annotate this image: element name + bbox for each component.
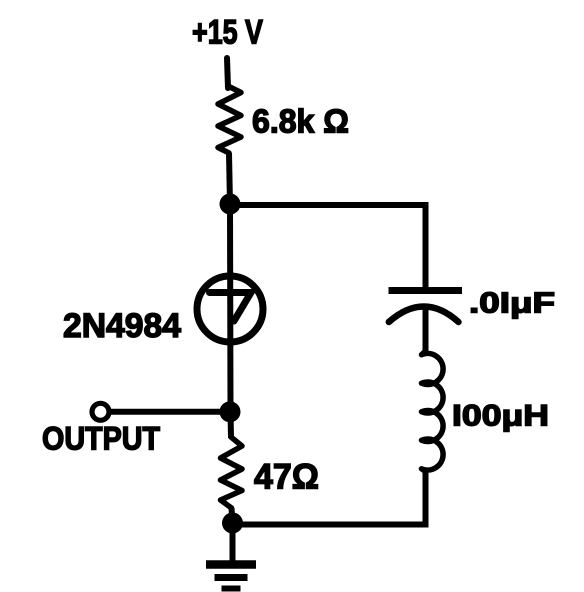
node A junction dot — [220, 194, 241, 215]
wire: R2 to node C — [232, 508, 233, 523]
svg-text:2N4984: 2N4984 — [63, 307, 181, 345]
transistor Q1 internal arrow symbol — [210, 293, 252, 322]
capacitor C1 top plate — [389, 287, 463, 294]
wire: R1 to node A — [229, 153, 230, 205]
resistor R1 — [218, 86, 241, 153]
svg-text:6.8k Ω: 6.8k Ω — [252, 103, 349, 140]
wire: node A to tank branch (top horizontal) — [230, 202, 429, 208]
wire: capacitor C1 to inductor L1 — [423, 306, 429, 355]
wire: tank top down to capacitor C1 — [423, 202, 429, 289]
svg-text:OUTPUT: OUTPUT — [42, 421, 160, 457]
svg-text:47Ω: 47Ω — [254, 458, 319, 497]
node C junction dot — [222, 513, 243, 534]
svg-text:+15 V: +15 V — [192, 14, 263, 52]
wire: node C to tank bottom (bottom horizontal) — [233, 522, 429, 528]
svg-text:I00μH: I00μH — [452, 400, 549, 433]
ground symbol — [206, 565, 256, 589]
resistor R2 — [221, 437, 243, 508]
wire: node A down through Q1 to node B — [227, 205, 234, 412]
svg-text:.0IμF: .0IμF — [469, 288, 555, 320]
wire: node C to ground — [230, 523, 236, 561]
wire: +15V supply to resistor R1 — [227, 58, 228, 88]
wire: inductor L1 to tank bottom — [423, 470, 429, 528]
node B junction dot — [220, 401, 241, 422]
wire: node B to resistor R2 — [228, 412, 235, 438]
capacitor C1 bottom curved plate — [389, 307, 459, 323]
inductor L1 coil — [422, 351, 444, 472]
output terminal circle — [92, 403, 109, 420]
transistor Q1 circle — [197, 276, 263, 342]
wire: output terminal to node B — [108, 409, 230, 415]
